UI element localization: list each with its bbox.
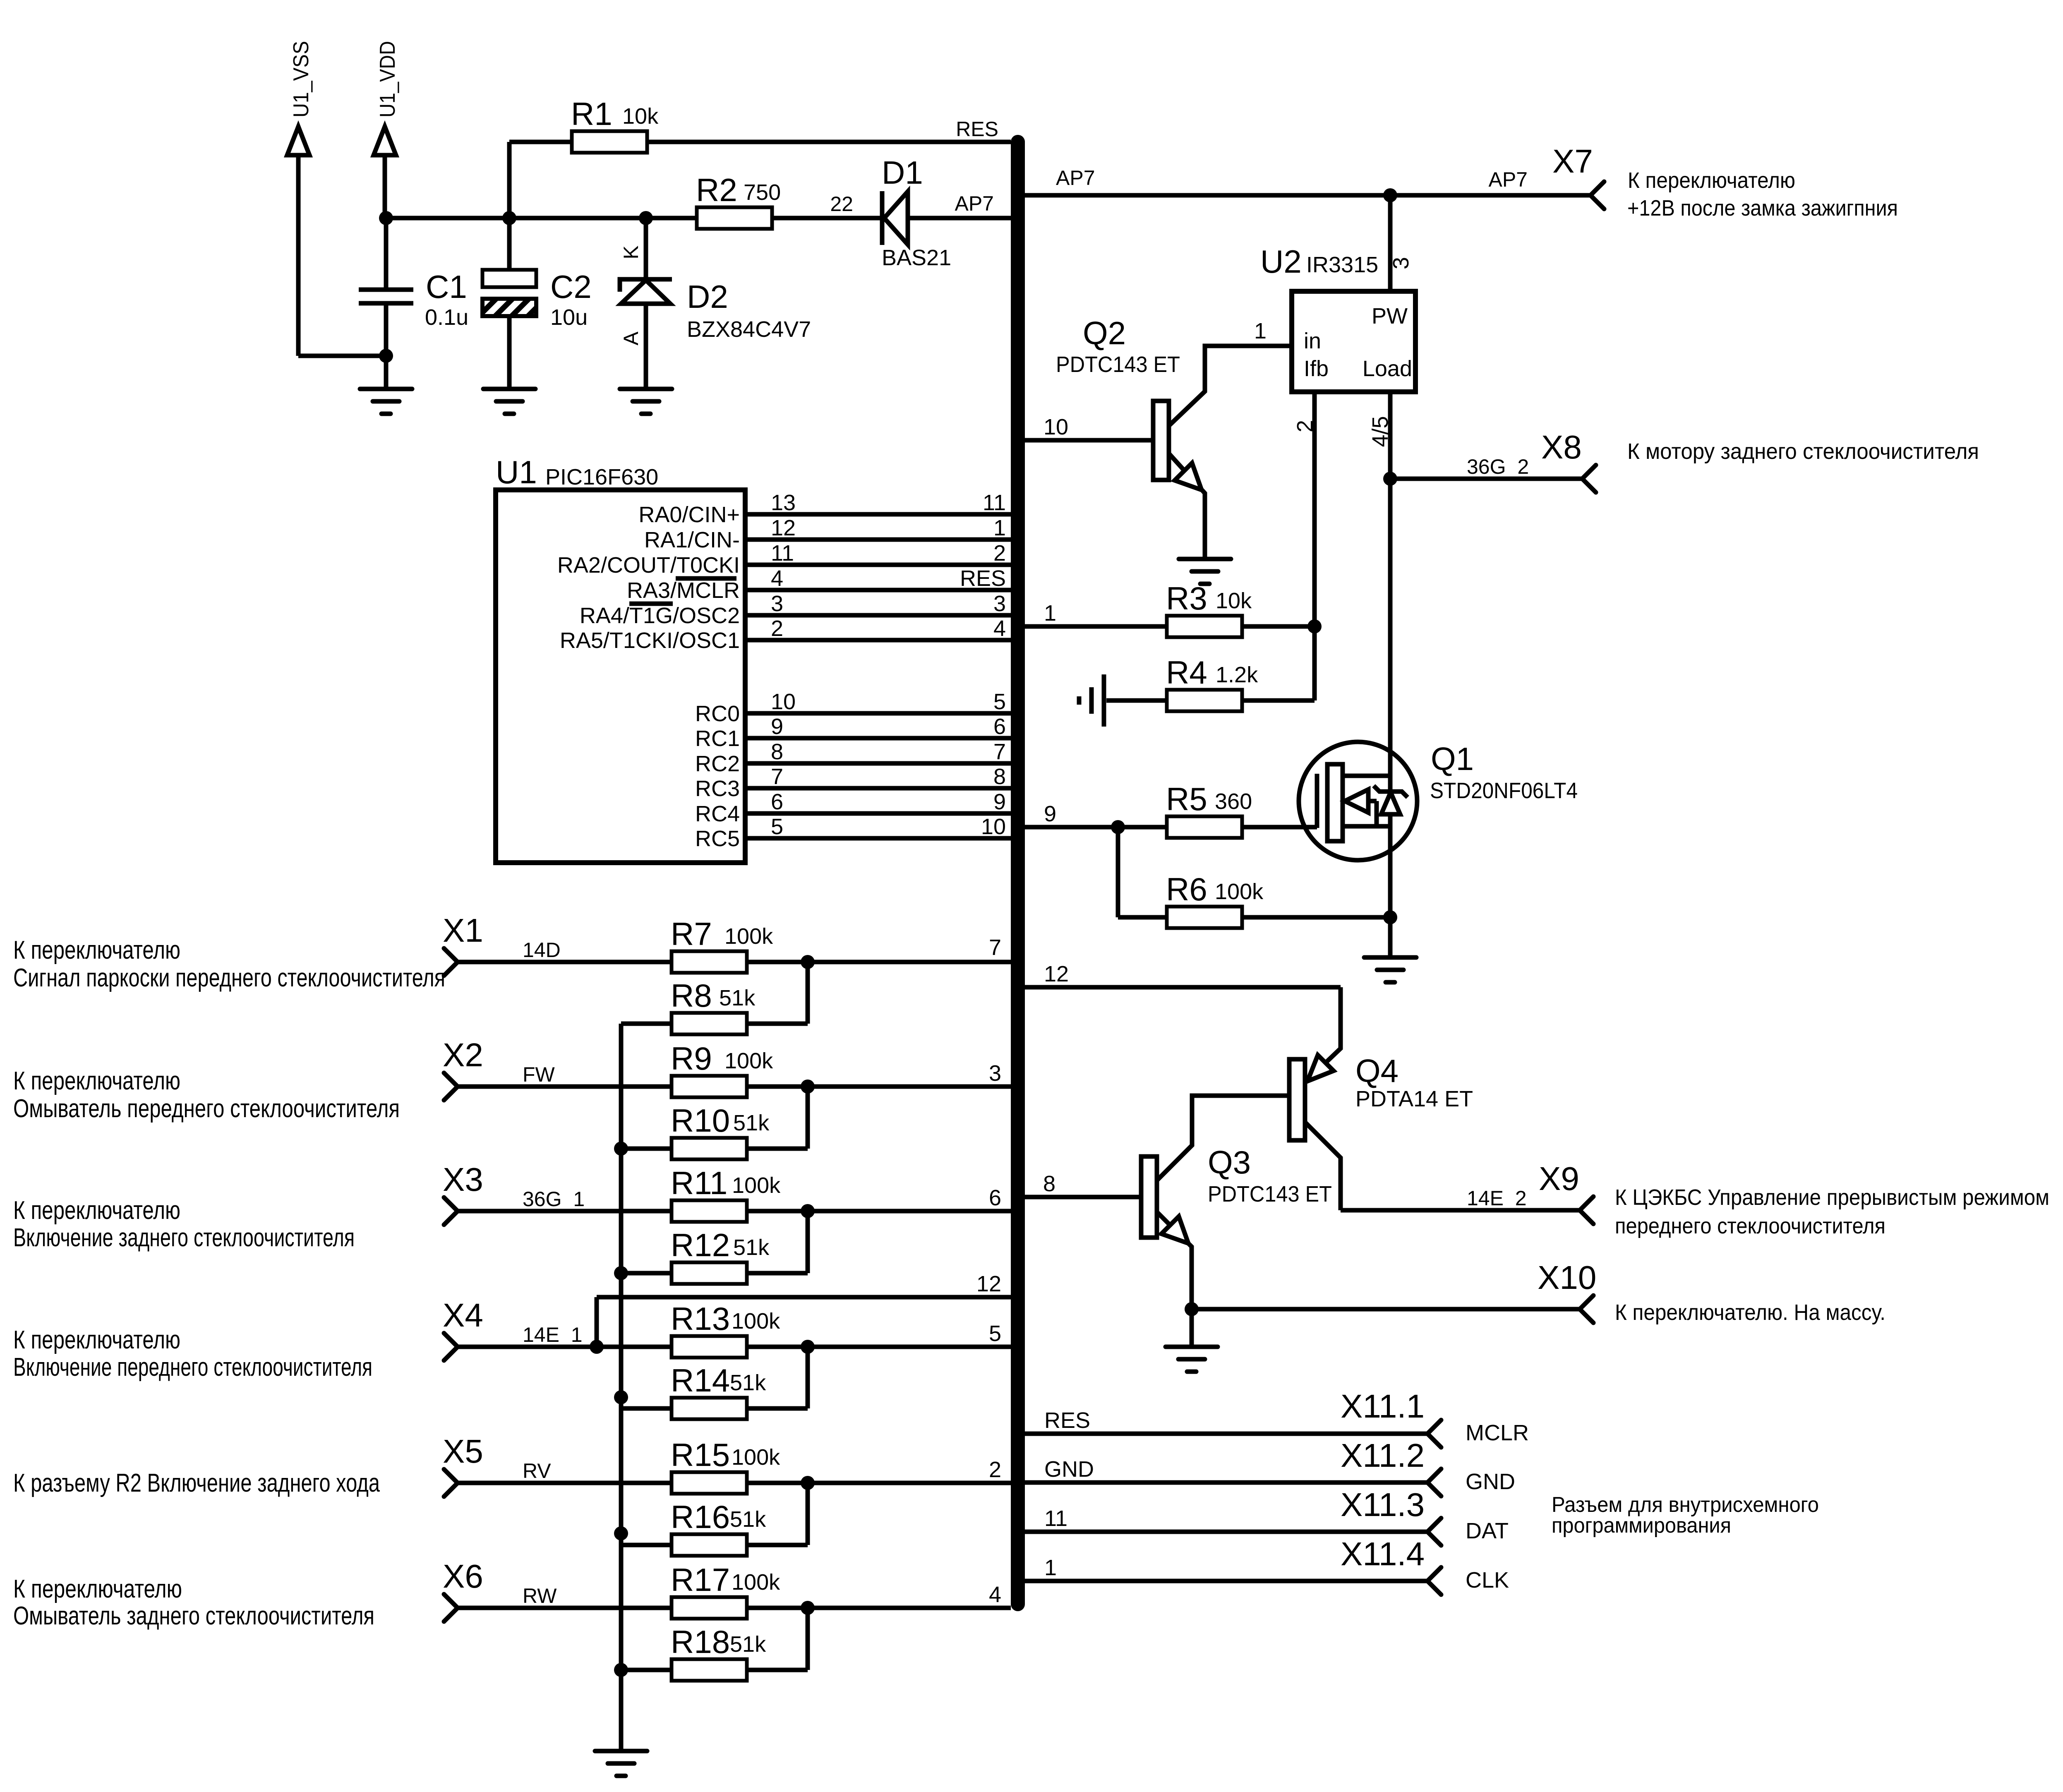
- wire U1 pin 12 (RA1/CIN-) to bus: [644, 516, 1011, 552]
- svg-text:R14: R14: [671, 1362, 730, 1399]
- svg-text:CLK: CLK: [1466, 1568, 1509, 1593]
- svg-text:U2: U2: [1260, 243, 1302, 280]
- svg-text:R3: R3: [1166, 580, 1207, 617]
- svg-text:14D: 14D: [523, 938, 561, 962]
- wire U2 pin 4/5 (Load): [1368, 392, 1393, 957]
- svg-text:Омыватель переднего стеклоочис: Омыватель переднего стеклоочистителя: [13, 1094, 400, 1123]
- svg-text:X5: X5: [443, 1433, 483, 1470]
- svg-text:12: 12: [771, 516, 796, 540]
- wire R12 leads: [614, 1211, 808, 1280]
- ground (Q2 emitter): [1179, 559, 1231, 584]
- wire Q4 collector to X9: [1341, 1187, 1580, 1210]
- svg-text:AP7: AP7: [1488, 168, 1528, 191]
- bus (vertical junction bar): [1011, 135, 1025, 1604]
- node AP7/U2 junction: [1383, 188, 1397, 202]
- wire D1 to bus (net AP7): [908, 192, 1011, 218]
- svg-text:13: 13: [771, 490, 796, 515]
- wire U1 pin 4 (RA3/MCLR) to bus: [627, 566, 1011, 603]
- wire U1 pin 7 (RC3) to bus: [695, 764, 1011, 801]
- svg-text:6: 6: [989, 1185, 1001, 1210]
- svg-text:К переключателю: К переключателю: [13, 936, 180, 964]
- svg-text:RA3/MCLR: RA3/MCLR: [627, 578, 740, 603]
- svg-text:R17: R17: [671, 1562, 730, 1598]
- wire 36G_2 to X8: [1383, 455, 1582, 486]
- svg-text:51k: 51k: [730, 1507, 766, 1532]
- svg-text:R11: R11: [671, 1165, 727, 1201]
- wire R10 leads: [614, 1087, 808, 1156]
- svg-text:10: 10: [981, 814, 1006, 839]
- wire U1 pin 3 (RA4/T1G/OSC2) to bus: [580, 591, 1011, 628]
- svg-text:A: A: [619, 331, 643, 345]
- wire bus to Q4 emitter (pin 12): [1025, 962, 1341, 1082]
- svg-text:4: 4: [989, 1582, 1001, 1607]
- resistor R2: [696, 172, 781, 229]
- svg-text:X11.2: X11.2: [1341, 1437, 1425, 1474]
- wire bus to Q3 base (pin 8): [1025, 1171, 1141, 1197]
- transistor Q2 PDTC143 ET: [1056, 315, 1205, 559]
- wire R13 to bus: [748, 1321, 1011, 1354]
- diode D1 BAS21: [882, 154, 951, 270]
- wire rail to R1: [509, 142, 570, 218]
- wire R4 to pin2 vertical: [1244, 698, 1315, 703]
- connector X8: [1541, 429, 1596, 492]
- svg-text:RES: RES: [956, 118, 998, 141]
- svg-text:51k: 51k: [730, 1370, 766, 1395]
- svg-text:GND: GND: [1044, 1457, 1094, 1482]
- svg-text:11: 11: [983, 490, 1006, 515]
- wire U2 pin 2 (Ifb): [1293, 392, 1317, 700]
- svg-text:Q3: Q3: [1208, 1144, 1251, 1180]
- svg-text:11: 11: [771, 541, 794, 566]
- svg-text:PDTC143 ET: PDTC143 ET: [1208, 1182, 1332, 1207]
- svg-text:Q2: Q2: [1083, 315, 1126, 351]
- svg-text:AP7: AP7: [955, 192, 994, 215]
- svg-text:R1: R1: [571, 96, 612, 132]
- svg-text:K: K: [619, 245, 643, 259]
- annotation X10: [1615, 1300, 1885, 1325]
- annotation X1: [13, 936, 445, 992]
- resistor R6 wiring: [1118, 827, 1165, 917]
- resistor R8: [671, 977, 756, 1034]
- wire R15 to bus: [748, 1457, 1011, 1490]
- svg-text:5: 5: [993, 689, 1006, 714]
- connector X11.2: [1341, 1437, 1515, 1496]
- svg-text:X6: X6: [443, 1558, 483, 1595]
- svg-text:9: 9: [771, 714, 783, 739]
- annotation X8: [1627, 439, 1979, 464]
- connector X11.4: [1341, 1535, 1509, 1595]
- wire R17 to bus: [748, 1582, 1011, 1615]
- annotation X2: [13, 1067, 400, 1123]
- svg-text:36G_2: 36G_2: [1467, 455, 1529, 478]
- transistor Q4 PDTA14 ET: [1289, 1053, 1473, 1210]
- connector X2: [443, 1036, 483, 1100]
- wire R8 leads: [621, 962, 808, 1024]
- svg-text:3: 3: [989, 1061, 1001, 1086]
- svg-text:9: 9: [1044, 801, 1056, 826]
- svg-text:0.1u: 0.1u: [425, 305, 468, 330]
- annotation X5: [13, 1469, 380, 1497]
- wire bus to X11.4 (net 1): [1025, 1555, 1427, 1581]
- svg-text:100k: 100k: [1215, 879, 1264, 904]
- svg-text:U1: U1: [496, 454, 537, 490]
- svg-text:750: 750: [744, 180, 781, 205]
- node VDD rail: [379, 211, 695, 225]
- svg-text:10u: 10u: [550, 305, 588, 330]
- svg-text:1: 1: [1044, 1555, 1057, 1580]
- ground (C1): [360, 389, 412, 414]
- svg-text:PW: PW: [1372, 304, 1408, 329]
- svg-text:1.2k: 1.2k: [1216, 662, 1258, 687]
- wire U1 pin 9 (RC1) to bus: [695, 714, 1011, 751]
- svg-text:C1: C1: [426, 269, 467, 305]
- ground (C2): [483, 389, 535, 414]
- IC U1 PIC16F630: [496, 454, 745, 863]
- resistor R1: [571, 96, 659, 153]
- svg-text:D1: D1: [882, 154, 923, 191]
- svg-text:U1_VSS: U1_VSS: [289, 41, 313, 118]
- svg-text:К переключателю: К переключателю: [13, 1196, 180, 1225]
- svg-text:2: 2: [771, 616, 783, 641]
- wire U1 pin 10 (RC0) to bus: [695, 689, 1011, 726]
- connector X6: [443, 1558, 483, 1622]
- svg-text:51k: 51k: [730, 1632, 766, 1657]
- overline T1G (pin RA4): [629, 602, 673, 606]
- svg-text:7: 7: [771, 764, 783, 789]
- wire bus to R5 (pin 9): [1025, 801, 1165, 834]
- svg-text:RC0: RC0: [695, 701, 740, 726]
- svg-text:D2: D2: [687, 278, 728, 315]
- transistor Q1 STD20NF06LT4 (MOSFET): [1299, 741, 1578, 860]
- svg-text:11: 11: [1044, 1506, 1067, 1531]
- svg-text:51k: 51k: [719, 986, 756, 1010]
- svg-text:К переключателю: К переключателю: [13, 1067, 180, 1095]
- svg-text:К разъему R2 Включение заднего: К разъему R2 Включение заднего хода: [13, 1469, 380, 1497]
- svg-text:К ЦЭКБС Управление прерывистым: К ЦЭКБС Управление прерывистым режимом: [1615, 1185, 2049, 1210]
- wire R1 to bus (net RES): [649, 118, 1011, 142]
- power symbol U1_VDD: [374, 41, 400, 218]
- svg-text:3: 3: [771, 591, 783, 616]
- resistor R9: [671, 1040, 773, 1097]
- svg-text:U1_VDD: U1_VDD: [376, 41, 400, 118]
- wire R6 to Q1 source: [1244, 915, 1390, 920]
- svg-text:R8: R8: [671, 977, 712, 1014]
- connector X11.3: [1341, 1486, 1509, 1545]
- svg-text:RES: RES: [1044, 1408, 1090, 1433]
- wire AP7 bus to X7: [1025, 166, 1590, 195]
- svg-text:14E_1: 14E_1: [523, 1323, 583, 1346]
- resistor R10: [671, 1102, 770, 1159]
- svg-text:6: 6: [993, 714, 1006, 739]
- wire R18 leads: [614, 1608, 808, 1677]
- wire R11 to bus: [748, 1185, 1011, 1218]
- svg-text:6: 6: [771, 789, 783, 814]
- connector X9: [1539, 1160, 1593, 1224]
- wire U1 pin 6 (RC4) to bus: [695, 789, 1011, 826]
- svg-text:9: 9: [993, 789, 1006, 814]
- ground (Q1 source): [1364, 957, 1416, 982]
- svg-text:8: 8: [771, 739, 783, 764]
- svg-text:PDTC143 ET: PDTC143 ET: [1056, 352, 1180, 377]
- svg-text:Включение заднего стеклоочисти: Включение заднего стеклоочистителя: [13, 1223, 355, 1252]
- wire Q1 source to ground: [1383, 910, 1397, 924]
- svg-text:2: 2: [989, 1457, 1001, 1482]
- svg-text:RA5/T1CKI/OSC1: RA5/T1CKI/OSC1: [560, 628, 740, 653]
- wire R7 to bus: [748, 935, 1011, 969]
- svg-text:4/5: 4/5: [1368, 416, 1393, 447]
- svg-text:12: 12: [976, 1271, 1001, 1296]
- wire bus to X11.1 (net RES): [1025, 1408, 1427, 1434]
- svg-text:DAT: DAT: [1466, 1519, 1509, 1543]
- annotation X11 programming header: [1552, 1493, 1819, 1538]
- resistor R12: [671, 1227, 770, 1284]
- svg-text:1: 1: [1254, 319, 1267, 343]
- resistor R18: [671, 1624, 766, 1681]
- IC U2 IR3315: [1260, 243, 1415, 392]
- svg-text:5: 5: [771, 814, 783, 839]
- svg-text:RA2/COUT/T0CKI: RA2/COUT/T0CKI: [557, 553, 740, 578]
- svg-text:RC3: RC3: [695, 776, 740, 801]
- svg-text:R9: R9: [671, 1040, 712, 1077]
- svg-text:К переключателю. На массу.: К переключателю. На массу.: [1615, 1300, 1885, 1325]
- wire R3 to pin2 net: [1244, 619, 1322, 633]
- wire bus to R3 (pin 1): [1025, 601, 1165, 626]
- svg-text:1: 1: [1044, 601, 1056, 626]
- svg-text:RES: RES: [960, 566, 1006, 591]
- wire U1 pin 11 (RA2/COUT/T0CKI) to bus: [557, 541, 1011, 578]
- connector X1: [443, 912, 483, 976]
- svg-text:R16: R16: [671, 1499, 730, 1535]
- ground (D2): [620, 389, 672, 414]
- svg-text:Load: Load: [1363, 356, 1412, 381]
- svg-text:22: 22: [830, 192, 853, 216]
- transistor Q3 PDTC143 ET: [1141, 1144, 1332, 1347]
- connector X3: [443, 1161, 483, 1225]
- svg-text:4: 4: [993, 616, 1006, 641]
- svg-text:7: 7: [993, 739, 1006, 764]
- connector X10: [1538, 1259, 1596, 1323]
- svg-text:X11.3: X11.3: [1341, 1486, 1425, 1523]
- annotation X4: [13, 1326, 372, 1382]
- svg-text:Q4: Q4: [1355, 1053, 1399, 1089]
- svg-text:100k: 100k: [724, 924, 773, 949]
- connector X5: [443, 1433, 483, 1497]
- svg-text:10k: 10k: [622, 104, 659, 129]
- svg-text:RC1: RC1: [695, 726, 740, 751]
- svg-text:3: 3: [1389, 257, 1413, 269]
- svg-text:3: 3: [993, 591, 1006, 616]
- svg-text:7: 7: [989, 935, 1001, 960]
- resistor R6: [1166, 871, 1264, 928]
- wire U1 pin 2 (RA5/T1CKI/OSC1) to bus: [560, 616, 1011, 653]
- svg-text:К переключателю: К переключателю: [13, 1575, 182, 1603]
- svg-text:Сигнал паркоски переднего стек: Сигнал паркоски переднего стеклоочистите…: [13, 964, 445, 992]
- wire X6 net RW: [458, 1584, 670, 1608]
- svg-text:R4: R4: [1166, 654, 1207, 691]
- overline MCLR (pin RA3): [676, 576, 736, 581]
- svg-text:R18: R18: [671, 1624, 730, 1660]
- ground (ladder): [595, 1751, 647, 1776]
- wire R2 to D1 (pin 22): [774, 192, 882, 218]
- svg-text:C2: C2: [550, 269, 592, 305]
- resistor R5: [1166, 781, 1252, 838]
- annotation X7: [1627, 168, 1898, 221]
- svg-text:RC4: RC4: [695, 801, 740, 826]
- svg-text:PDTA14 ET: PDTA14 ET: [1355, 1087, 1473, 1111]
- svg-text:100k: 100k: [724, 1048, 773, 1073]
- svg-text:R7: R7: [671, 916, 712, 952]
- svg-text:MCLR: MCLR: [1466, 1420, 1529, 1445]
- svg-text:360: 360: [1215, 789, 1252, 814]
- resistor R14: [671, 1362, 766, 1419]
- resistor R11: [671, 1165, 781, 1222]
- svg-text:К мотору заднего стеклоочистит: К мотору заднего стеклоочистителя: [1627, 439, 1979, 464]
- svg-text:RA0/CIN+: RA0/CIN+: [638, 502, 740, 527]
- svg-text:+12В после замка зажигпния: +12В после замка зажигпния: [1627, 196, 1898, 221]
- annotation X3: [13, 1196, 355, 1252]
- svg-text:100k: 100k: [732, 1445, 780, 1470]
- svg-text:X9: X9: [1539, 1160, 1579, 1197]
- wire R5 to Q1 gate: [1244, 825, 1317, 830]
- resistor R4: [1166, 654, 1258, 711]
- svg-text:100k: 100k: [732, 1570, 780, 1595]
- svg-text:RC2: RC2: [695, 751, 740, 776]
- svg-text:программирования: программирования: [1552, 1514, 1731, 1538]
- svg-text:10: 10: [1043, 415, 1068, 439]
- svg-text:RV: RV: [523, 1459, 551, 1483]
- svg-text:X3: X3: [443, 1161, 483, 1198]
- wire bus to X11.3 (net 11): [1025, 1506, 1427, 1532]
- svg-text:R15: R15: [671, 1437, 730, 1473]
- wire ladder vertical rail: [619, 1024, 624, 1751]
- capacitor C2 (polarized): [482, 218, 592, 389]
- svg-text:36G_1: 36G_1: [523, 1187, 585, 1211]
- svg-text:8: 8: [993, 764, 1006, 789]
- svg-text:R10: R10: [671, 1102, 730, 1139]
- wire X1 net 14D: [458, 938, 670, 962]
- svg-text:5: 5: [989, 1321, 1001, 1346]
- wire 12 lower (X4 to bus): [590, 1271, 1011, 1354]
- svg-text:R6: R6: [1166, 871, 1207, 907]
- wire U1 pin 8 (RC2) to bus: [695, 739, 1011, 776]
- wire X10: [1192, 1307, 1580, 1312]
- svg-text:R5: R5: [1166, 781, 1207, 817]
- svg-text:FW: FW: [523, 1063, 555, 1086]
- svg-text:100k: 100k: [732, 1309, 780, 1334]
- power symbol U1_VSS: [287, 41, 386, 356]
- svg-text:14E_2: 14E_2: [1467, 1187, 1527, 1210]
- svg-text:Ifb: Ifb: [1304, 356, 1329, 381]
- svg-text:10: 10: [771, 689, 796, 714]
- svg-text:Q1: Q1: [1431, 741, 1474, 777]
- svg-text:in: in: [1304, 329, 1321, 353]
- svg-text:X2: X2: [443, 1036, 483, 1073]
- svg-text:X7: X7: [1552, 143, 1593, 180]
- connector X11.1: [1341, 1388, 1529, 1447]
- resistor R16: [671, 1499, 766, 1556]
- svg-text:2: 2: [993, 541, 1006, 566]
- svg-text:RA1/CIN-: RA1/CIN-: [644, 528, 740, 552]
- wire X4 net 14E_1: [458, 1323, 670, 1347]
- zener diode D2 BZX84C4V7: [619, 218, 811, 389]
- svg-text:GND: GND: [1466, 1469, 1515, 1494]
- svg-text:К переключателю: К переключателю: [1628, 168, 1795, 193]
- svg-text:Включение переднего стеклоочис: Включение переднего стеклоочистителя: [13, 1353, 372, 1382]
- wire U1 pin 5 (RC5) to bus: [695, 814, 1011, 851]
- svg-text:R2: R2: [696, 172, 737, 208]
- svg-text:X10: X10: [1538, 1259, 1596, 1296]
- wire R14 leads: [614, 1347, 808, 1408]
- svg-text:12: 12: [1044, 962, 1069, 986]
- ground (R4 left, rotated): [1079, 674, 1165, 727]
- wire X2 net FW: [458, 1063, 670, 1087]
- resistor R15: [671, 1437, 780, 1494]
- wire Q3 emitter to X10 node: [1185, 1302, 1199, 1316]
- wire R9 to bus: [748, 1061, 1011, 1094]
- svg-text:X11.1: X11.1: [1341, 1388, 1425, 1425]
- svg-text:PIC16F630: PIC16F630: [545, 465, 658, 489]
- svg-text:10k: 10k: [1216, 588, 1252, 613]
- junction VSS/C1: [379, 349, 393, 363]
- svg-text:переднего стеклоочистителя: переднего стеклоочистителя: [1615, 1214, 1885, 1238]
- wire U2 pin 3: [1389, 195, 1413, 291]
- connector X7: [1552, 143, 1604, 209]
- resistor R3: [1166, 580, 1252, 637]
- svg-text:2: 2: [1293, 420, 1317, 432]
- wire R16 leads: [614, 1483, 808, 1545]
- svg-text:BAS21: BAS21: [882, 245, 951, 270]
- wire X3 net 36G_1: [458, 1187, 670, 1211]
- svg-text:AP7: AP7: [1056, 166, 1095, 190]
- connector X4: [443, 1297, 483, 1360]
- svg-text:IR3315: IR3315: [1306, 252, 1378, 277]
- svg-text:BZX84C4V7: BZX84C4V7: [687, 317, 811, 342]
- svg-text:RC5: RC5: [695, 826, 740, 851]
- svg-text:RW: RW: [523, 1584, 557, 1607]
- svg-text:X4: X4: [443, 1297, 483, 1334]
- svg-text:Омыватель заднего стеклоочисти: Омыватель заднего стеклоочистителя: [13, 1602, 374, 1630]
- svg-text:51k: 51k: [733, 1111, 770, 1135]
- svg-text:1: 1: [993, 516, 1006, 540]
- wire bus to Q2 base (pin 10): [1025, 415, 1153, 440]
- wire U1 pin 13 (RA0/CIN+) to bus: [638, 490, 1011, 527]
- svg-text:100k: 100k: [732, 1173, 781, 1198]
- wire X5 net RV: [458, 1459, 670, 1483]
- resistor R17: [671, 1562, 780, 1619]
- ground (Q3 emitter): [1166, 1347, 1218, 1372]
- svg-text:STD20NF06LT4: STD20NF06LT4: [1430, 778, 1578, 803]
- svg-text:8: 8: [1043, 1171, 1055, 1196]
- capacitor C1: [359, 218, 468, 389]
- resistor R7: [671, 916, 773, 973]
- svg-text:R12: R12: [671, 1227, 730, 1263]
- wire U2 pin 1 (in) to Q2 collector: [1169, 319, 1292, 426]
- svg-text:RA4/T1G/OSC2: RA4/T1G/OSC2: [580, 603, 740, 628]
- svg-text:R13: R13: [671, 1300, 730, 1337]
- svg-text:X1: X1: [443, 912, 483, 949]
- wire Q4 base to Q3 collector: [1157, 1096, 1289, 1180]
- resistor R13: [671, 1300, 780, 1358]
- annotation X9: [1615, 1185, 2049, 1238]
- svg-text:51k: 51k: [733, 1235, 770, 1260]
- svg-text:X8: X8: [1541, 429, 1582, 465]
- svg-text:К переключателю: К переключателю: [13, 1326, 180, 1354]
- svg-text:X11.4: X11.4: [1341, 1535, 1425, 1572]
- annotation X6: [13, 1575, 374, 1630]
- svg-text:4: 4: [771, 566, 783, 591]
- wire bus to X11.2 (net GND): [1025, 1457, 1427, 1483]
